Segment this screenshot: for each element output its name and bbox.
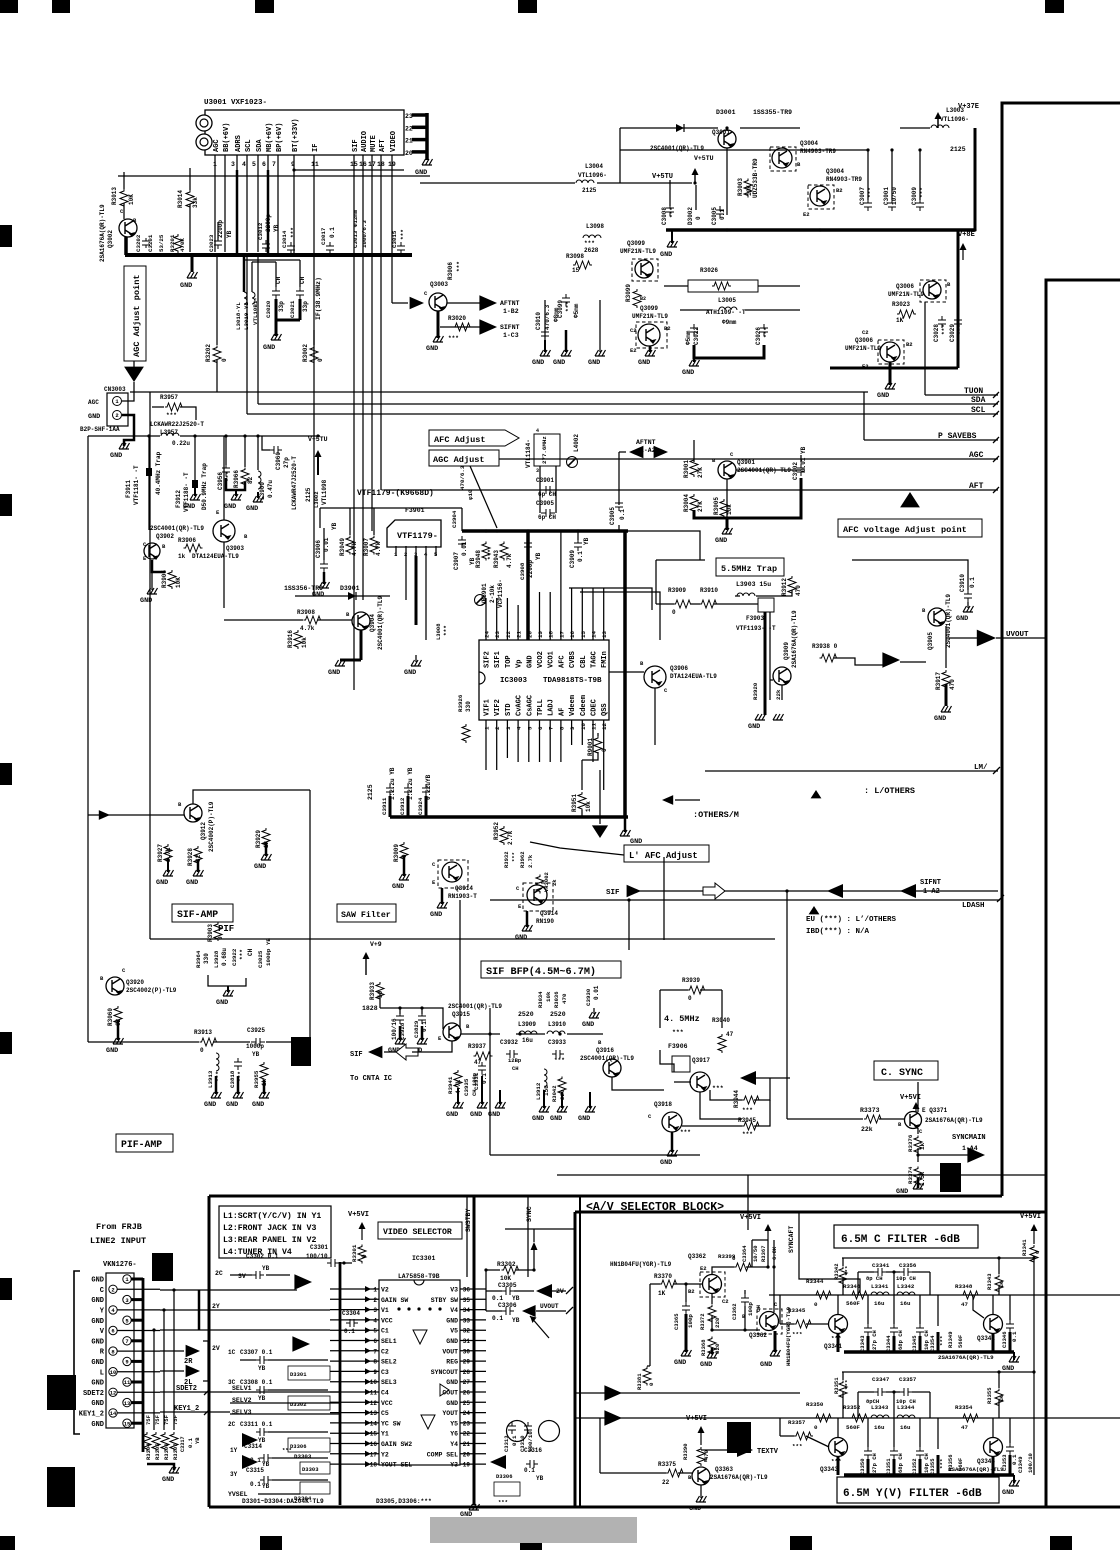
svg-text:VR3002: VR3002 (543, 872, 550, 892)
VKN1276 pin 11 GND (123, 1378, 131, 1386)
svg-text:C3829: C3829 (413, 1020, 420, 1038)
svg-text:75F: 75F (163, 1415, 170, 1425)
wire row y=300 to Q3003 (392, 302, 408, 304)
svg-text:GND: GND (430, 911, 442, 919)
svg-text:C3901: C3901 (536, 477, 554, 484)
wire video selector block left/bottom (208, 1196, 211, 1507)
svg-text:C3932: C3932 (500, 1039, 518, 1046)
wire AFTNT arrows (629, 446, 643, 459)
svg-text:C3315: C3315 (246, 1467, 264, 1474)
svg-text:20: 20 (405, 150, 413, 157)
svg-text:SYNCAFT: SYNCAFT (788, 1226, 795, 1253)
svg-text:GND: GND (204, 1101, 216, 1109)
wire vertical x=664 (663, 857, 665, 940)
svg-text:SYNCMAIN: SYNCMAIN (952, 1134, 986, 1142)
svg-text:V+5TU: V+5TU (308, 436, 328, 443)
svg-text:8: 8 (558, 726, 565, 730)
svg-text:F3906: F3906 (668, 1043, 688, 1050)
inductor L3018 L3019 coils (243, 255, 246, 292)
svg-text:SIF: SIF (606, 889, 620, 897)
svg-text:68p CH: 68p CH (897, 1453, 904, 1473)
svg-text:R3098: R3098 (566, 253, 584, 260)
ground Q3901 (722, 528, 733, 534)
svg-text:Q3341: Q3341 (824, 1343, 842, 1350)
svg-text:***: *** (742, 1107, 753, 1114)
svg-text:C3352: C3352 (911, 1458, 918, 1475)
svg-text:2520: 2520 (518, 1011, 534, 1018)
box AFC voltage Adjust point (838, 519, 982, 537)
ground Q3920 (117, 1020, 120, 1040)
svg-text:R3005: R3005 (713, 497, 720, 515)
svg-text:MUTE: MUTE (370, 135, 378, 152)
wire SDET2 (160, 1391, 230, 1393)
svg-text:2: 2 (111, 1287, 114, 1294)
wire Q3916 to Q3918 (612, 1077, 664, 1090)
svg-text:R3938 0: R3938 0 (812, 643, 838, 650)
svg-text:C3021: C3021 (289, 300, 296, 318)
svg-text:R3966: R3966 (233, 470, 240, 488)
svg-text:7: 7 (125, 1338, 128, 1345)
svg-text:0: 0 (732, 1255, 736, 1262)
svg-text:GND: GND (91, 1421, 104, 1429)
svg-text:AGC: AGC (969, 451, 984, 460)
svg-text:Q3916: Q3916 (596, 1047, 614, 1054)
svg-text:VIDEO: VIDEO (390, 131, 398, 152)
svg-text:PIF-AMP: PIF-AMP (121, 1139, 162, 1150)
svg-text:UDZ533B-TR9: UDZ533B-TR9 (752, 158, 759, 198)
arrow TEXTV (737, 1443, 753, 1457)
svg-text:R3042: R3042 (551, 1085, 558, 1102)
svg-text:AGC: AGC (88, 399, 99, 406)
svg-text:C3347: C3347 (872, 1376, 890, 1383)
svg-text:CDEC: CDEC (591, 699, 599, 716)
svg-text:SYNC: SYNC (526, 1206, 533, 1222)
svg-text:2SA1676A(QR)-TL9: 2SA1676A(QR)-TL9 (948, 1466, 1004, 1473)
ground C3956 (226, 478, 245, 490)
svg-text:DTA124EUA-TL9: DTA124EUA-TL9 (192, 553, 239, 560)
svg-text:19: 19 (537, 631, 544, 638)
svg-text:R3348: R3348 (955, 1283, 973, 1290)
svg-text:C3025: C3025 (257, 950, 264, 968)
svg-text:2k: 2k (551, 879, 558, 886)
svg-text:GND: GND (460, 1511, 472, 1519)
svg-text:R3023: R3023 (892, 301, 910, 308)
svg-text:6.5M C FILTER -6dB: 6.5M C FILTER -6dB (841, 1234, 960, 1246)
transistor Q3901 2SC4001(QR)-TL9 (718, 461, 736, 479)
svg-text:R3304: R3304 (145, 1443, 152, 1460)
svg-text:AFC: AFC (558, 655, 566, 668)
wire SWSTBY vertical (466, 1196, 468, 1277)
svg-text:GND: GND (446, 1400, 458, 1407)
svg-text:L3957: L3957 (160, 429, 178, 436)
VKN1276 pin 2 C (109, 1285, 117, 1293)
ground row above Q3920 (208, 975, 246, 986)
svg-text:***: *** (831, 1458, 841, 1465)
svg-text:R3920: R3920 (752, 682, 759, 700)
svg-text:GND: GND (674, 1359, 686, 1367)
svg-text:VIF1: VIF1 (484, 699, 492, 716)
label UVOUT (1002, 637, 1046, 639)
pointer AGC adjust triangle (124, 367, 144, 382)
svg-text:8: 8 (373, 1359, 377, 1366)
svg-text:27p CH: 27p CH (871, 1453, 878, 1473)
svg-text:C3305: C3305 (498, 1282, 517, 1289)
svg-text:D3302: D3302 (290, 1401, 307, 1408)
diode D3302 dashed (288, 1396, 330, 1410)
svg-text:REG: REG (446, 1359, 458, 1366)
svg-text:V1: V1 (381, 1307, 389, 1314)
svg-text:0.1: 0.1 (344, 1328, 355, 1335)
svg-text:D3301: D3301 (290, 1371, 307, 1378)
svg-text:C2: C2 (722, 1298, 729, 1305)
svg-text:MB(+6V): MB(+6V) (266, 123, 274, 152)
svg-text:D3002: D3002 (687, 207, 694, 225)
svg-text:AFTNT: AFTNT (500, 300, 520, 307)
svg-text:C3351: C3351 (885, 1458, 892, 1475)
svg-text:GND: GND (91, 1359, 104, 1367)
wire long verticals mid (87, 940, 89, 1042)
svg-text:Q3905: Q3905 (927, 632, 934, 650)
filter VTL1184- L4002 (534, 434, 560, 466)
VKN1276 pin 13 GND (123, 1398, 131, 1406)
svg-text:GND: GND (91, 1380, 104, 1388)
VKN1276 pin 8 R (109, 1347, 117, 1355)
svg-text:D3301~D3304:DA204K-TL9: D3301~D3304:DA204K-TL9 (242, 1498, 324, 1505)
wire P SAVEBS vertical (863, 392, 865, 440)
svg-text:23: 23 (405, 113, 413, 120)
wire LM slash (705, 770, 998, 772)
box VIDEO SELECTOR (378, 1222, 462, 1239)
svg-text:GND: GND (91, 1318, 104, 1326)
wire row2 inputs (575, 1392, 800, 1394)
svg-text:R3909: R3909 (668, 587, 686, 594)
svg-text:Q3004: Q3004 (826, 168, 844, 175)
svg-text:34: 34 (463, 1307, 471, 1314)
svg-text:13: 13 (124, 1400, 131, 1407)
svg-text:C3908: C3908 (519, 562, 526, 580)
svg-text:75F: 75F (154, 1415, 161, 1425)
svg-text:GND: GND (446, 1379, 458, 1386)
svg-text:GND: GND (1002, 1489, 1014, 1497)
wire vertical x=629 (628, 900, 630, 950)
svg-text:GND: GND (700, 1361, 712, 1369)
svg-text:GAIN SW2: GAIN SW2 (381, 1441, 412, 1448)
svg-text:27K: 27K (697, 467, 704, 478)
svg-text:47: 47 (726, 1031, 734, 1038)
svg-text:2SC4001(QR)-TL9: 2SC4001(QR)-TL9 (650, 145, 704, 152)
svg-text:1-C3: 1-C3 (503, 332, 519, 339)
svg-text:L3903 15u: L3903 15u (736, 581, 771, 588)
svg-text:0: 0 (221, 358, 228, 362)
wire video selector block right (579, 1196, 581, 1507)
svg-text:R3368: R3368 (700, 1339, 707, 1356)
svg-text:STD: STD (505, 703, 513, 716)
svg-text:1000p: 1000p (246, 1043, 264, 1050)
svg-text:TDA9818TS-T9B: TDA9818TS-T9B (543, 677, 602, 685)
svg-text:14: 14 (110, 1410, 117, 1417)
svg-text:15: 15 (124, 1420, 131, 1427)
svg-text:C3020: C3020 (265, 300, 272, 318)
svg-text:C3: C3 (381, 1369, 389, 1376)
svg-text:1-A2: 1-A2 (923, 888, 940, 896)
svg-text:11: 11 (124, 1379, 131, 1386)
svg-text:GND: GND (446, 1111, 458, 1119)
svg-text:23: 23 (494, 631, 501, 638)
wire Q3905 (945, 626, 947, 668)
arrow UVOUT mid (882, 652, 900, 667)
svg-text:12: 12 (370, 1400, 378, 1407)
svg-text:4.7k: 4.7k (375, 541, 382, 556)
VKN GND bus thick (142, 1278, 145, 1452)
svg-text:C2: C2 (630, 327, 637, 334)
svg-text:GND: GND (216, 999, 228, 1007)
svg-text:GND: GND (106, 1047, 118, 1055)
svg-text:C3015: C3015 (391, 230, 398, 248)
svg-text:R3341: R3341 (1021, 1239, 1028, 1256)
svg-text:CBL: CBL (580, 655, 588, 668)
svg-text:GND: GND (91, 1400, 104, 1408)
ground video selector (469, 1504, 480, 1510)
svg-text:C3311 0.1: C3311 0.1 (240, 1421, 273, 1428)
svg-text:<A/V SELECTOR BLOCK>: <A/V SELECTOR BLOCK> (586, 1201, 724, 1214)
transistor Q3918 (662, 1112, 682, 1132)
svg-text:C3023: C3023 (208, 234, 215, 252)
ground IF trap thick bracket (275, 299, 278, 320)
svg-text:1000/6.3: 1000/6.3 (361, 220, 368, 248)
svg-text:Q3914: Q3914 (455, 885, 473, 892)
svg-text:TEXTV: TEXTV (757, 1448, 779, 1456)
svg-text:B2: B2 (906, 341, 913, 348)
black arrow left mid (827, 884, 843, 898)
wire sif bfp feed (379, 994, 381, 1008)
svg-text:3: 3 (505, 726, 512, 730)
capacitors row2 stubs (864, 1447, 872, 1459)
svg-text:L3343: L3343 (871, 1404, 889, 1411)
svg-text:R3917: R3917 (935, 672, 942, 690)
svg-text:SIF-AMP: SIF-AMP (177, 909, 218, 920)
svg-text:YB: YB (226, 230, 233, 238)
svg-text:AGC Adjust point: AGC Adjust point (132, 274, 142, 357)
svg-text:2SC4001(QR)-TL9: 2SC4001(QR)-TL9 (448, 1003, 502, 1010)
svg-text:Cdeem: Cdeem (580, 695, 588, 716)
wire selv long (230, 1391, 340, 1393)
wire Q3915 collector (412, 1041, 452, 1052)
svg-text:12Bp: 12Bp (508, 1057, 522, 1064)
svg-text:***: *** (166, 412, 177, 419)
svg-text:4.7k: 4.7k (351, 541, 358, 556)
svg-text:6: 6 (373, 1338, 377, 1345)
black mark rectangle (291, 1037, 311, 1066)
svg-text:VTF1181- -T: VTF1181- -T (133, 465, 140, 505)
svg-text:R3014: R3014 (177, 190, 184, 208)
svg-text:IF(38.9MHz): IF(38.9MHz) (315, 277, 322, 320)
svg-text:C3355: C3355 (929, 1458, 936, 1475)
ground row2 (1013, 1475, 1015, 1483)
wire main block bottom edge (209, 1195, 1002, 1198)
ground R3917 (941, 706, 952, 712)
bus thick IC ground y=817 (390, 815, 628, 819)
box L' AFC Adjust (624, 845, 709, 862)
svg-text:0: 0 (361, 1254, 368, 1258)
svg-text:17: 17 (370, 1451, 378, 1458)
box AGC Adjust point (124, 266, 146, 361)
wire left long vertical x=88 (87, 436, 89, 940)
svg-text:C4: C4 (381, 1390, 389, 1397)
wire CN3003 AGC (122, 382, 134, 401)
svg-text:LADJ: LADJ (548, 699, 556, 716)
svg-text:P SAVEBS: P SAVEBS (938, 432, 977, 441)
ground R3929 (265, 842, 268, 856)
svg-text:SAW Filter: SAW Filter (341, 910, 391, 920)
svg-text:10: 10 (580, 723, 587, 730)
svg-text:0.01: 0.01 (461, 541, 468, 556)
svg-text:YOUT SEL: YOUT SEL (381, 1462, 412, 1469)
svg-text:E2: E2 (803, 211, 810, 218)
svg-text:6: 6 (111, 1328, 114, 1335)
wire pif row (88, 1041, 199, 1043)
svg-text:R3913: R3913 (194, 1029, 212, 1036)
svg-text:E2: E2 (700, 1265, 707, 1272)
svg-text:YB: YB (252, 1051, 260, 1058)
wire x=620 vertical (619, 128, 621, 183)
svg-text:C3906: C3906 (315, 540, 322, 558)
svg-text:C2: C2 (381, 1348, 389, 1355)
svg-text:D3303: D3303 (302, 1466, 319, 1473)
svg-text:1-B2: 1-B2 (503, 308, 519, 315)
wire filter row1 top rail (842, 1257, 1034, 1259)
svg-text:YB: YB (512, 1317, 520, 1324)
svg-text:C3907: C3907 (453, 552, 460, 570)
open arrow SIF (703, 883, 725, 899)
svg-text:***: *** (290, 227, 297, 238)
svg-text:40.4MHz Trap: 40.4MHz Trap (155, 451, 162, 495)
svg-text:R3951: R3951 (571, 794, 578, 812)
svg-text:AUDIO: AUDIO (361, 131, 369, 152)
IC U3003 IC3003 TDA9818TS-T9B (479, 640, 609, 720)
svg-text:SDA: SDA (971, 396, 986, 405)
svg-text:2SC4002(P)-TL9: 2SC4002(P)-TL9 (208, 801, 215, 852)
transistor Q3914 RN1903-T b (527, 885, 547, 905)
svg-text:15: 15 (580, 631, 587, 638)
transistor Q3916 2SC4001(QR)-TL9 (603, 1059, 621, 1077)
svg-text:R3926: R3926 (457, 694, 464, 712)
svg-text:2: 2 (373, 1297, 377, 1304)
svg-text:CvAGC: CvAGC (516, 695, 524, 716)
box SIF BFP (481, 961, 621, 978)
svg-text:GND: GND (956, 615, 968, 623)
VKN1276 pin 3 GND (123, 1295, 131, 1303)
wire SYNCAFT (799, 1212, 860, 1293)
svg-text:F3903: F3903 (746, 615, 764, 622)
wire AUDIO long vertical (362, 170, 364, 600)
svg-text:VCC: VCC (381, 1317, 393, 1324)
svg-text:D3305,D3306:***: D3305,D3306:*** (376, 1498, 432, 1505)
svg-text:C3960: C3960 (275, 452, 282, 470)
svg-text:R3302: R3302 (497, 1261, 516, 1268)
svg-text:C3345: C3345 (911, 1335, 918, 1352)
wire csync long (490, 1154, 700, 1156)
svg-text:560F: 560F (957, 1335, 964, 1348)
svg-text:L3008: L3008 (435, 623, 442, 640)
svg-text:R3036: R3036 (553, 991, 560, 1008)
svg-text:1K: 1K (658, 1290, 666, 1297)
svg-text:IC3003: IC3003 (500, 677, 528, 685)
svg-text:13: 13 (370, 1410, 378, 1417)
wire R3944 R3945 links (754, 1078, 770, 1100)
svg-text:C3357: C3357 (899, 1376, 917, 1383)
box C. SYNC (874, 1061, 938, 1080)
svg-text:GND: GND (254, 863, 266, 871)
wire U3001 pin stubs (214, 155, 216, 170)
svg-text:470: 470 (561, 993, 568, 1004)
svg-text:GND: GND (877, 392, 889, 400)
svg-text:2.7k: 2.7k (507, 830, 514, 845)
svg-text:D50.9MHz Trap: D50.9MHz Trap (201, 463, 208, 510)
svg-text:C3346: C3346 (1001, 1331, 1008, 1348)
grounds 2nd cluster (543, 1090, 545, 1108)
svg-text:V2: V2 (381, 1287, 389, 1294)
svg-text:L3018-YL: L3018-YL (235, 302, 242, 330)
svg-text:R3908: R3908 (297, 609, 315, 616)
ground L3005 (693, 358, 695, 362)
svg-text:0: 0 (648, 1382, 655, 1386)
svg-text:GND: GND (470, 1111, 482, 1119)
bus thick x=625 (623, 531, 627, 817)
svg-text:L: L (100, 1369, 104, 1377)
ground U3001 (422, 159, 433, 165)
svg-text:C3956: C3956 (217, 472, 224, 490)
svg-text:1828: 1828 (362, 1005, 378, 1012)
wire Q3362a emitter to rail (712, 1267, 734, 1274)
svg-text:COMP SEL: COMP SEL (427, 1451, 458, 1458)
svg-text:C1: C1 (381, 1328, 389, 1335)
bus row1 bottom thick (844, 1350, 1014, 1354)
svg-text:TUON: TUON (964, 387, 983, 396)
wire KEY1_2 (160, 1411, 230, 1413)
svg-text:Q3362: Q3362 (749, 1332, 767, 1339)
svg-text:YC SW: YC SW (381, 1420, 401, 1427)
svg-text:75F: 75F (172, 1415, 179, 1425)
svg-text:GND: GND (186, 879, 198, 887)
transistor Q3342 (984, 1315, 1003, 1334)
svg-text:AFT: AFT (969, 482, 984, 491)
svg-text:560F: 560F (846, 1300, 860, 1307)
grounds L3913 C3818 R3955 (215, 1076, 218, 1094)
svg-text:Φ9mm: Φ9mm (722, 319, 737, 326)
wire right main bus frame (1002, 103, 1120, 1196)
svg-text:GND: GND (328, 669, 340, 677)
svg-text:R3355: R3355 (986, 1387, 993, 1404)
transistor Q3920 2SC4002(P)-TL9 (106, 977, 124, 995)
bus thick V+8E y=230 (666, 228, 975, 232)
svg-text:C3349: C3349 (1017, 1456, 1024, 1473)
gray bar bottom (430, 1517, 637, 1543)
svg-text:R3013: R3013 (111, 187, 118, 205)
wire AFT vertical to AFT line (380, 170, 382, 490)
svg-text:R3343: R3343 (986, 1273, 993, 1290)
svg-text:3V: 3V (238, 1273, 246, 1280)
svg-text:0.1: 0.1 (619, 509, 626, 520)
svg-text:32: 32 (463, 1328, 471, 1335)
svg-text:GND: GND (515, 934, 527, 942)
svg-text:GND: GND (526, 655, 534, 668)
svg-text:27p: 27p (283, 457, 290, 468)
svg-text:SIF BFP(4.5M~6.7M): SIF BFP(4.5M~6.7M) (486, 966, 596, 978)
svg-text:2: 2 (494, 726, 501, 730)
svg-text:STBY SW: STBY SW (431, 1297, 458, 1304)
wire into R3373 (787, 1118, 863, 1120)
svg-text:V5: V5 (450, 1328, 458, 1335)
